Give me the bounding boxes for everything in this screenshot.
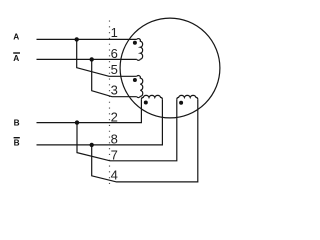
label A-bar — [13, 52, 20, 63]
junction node B-bar — [90, 143, 94, 147]
polarity dot L1 — [133, 41, 137, 45]
label B-bar — [14, 137, 20, 148]
svg-text:2: 2 — [111, 110, 118, 125]
coil L2 (phase A-bar, leads 5-3) — [137, 76, 143, 98]
wire A-bar to lead 3 (drop + jog) — [92, 59, 137, 96]
coil L4 (phase B-bar, leads 7-4) — [177, 95, 198, 99]
svg-text:5: 5 — [111, 62, 118, 77]
junction node A — [75, 37, 79, 41]
svg-text:4: 4 — [111, 168, 118, 183]
svg-text:8: 8 — [111, 132, 118, 147]
svg-text:A: A — [13, 53, 19, 63]
polarity dot L3 — [144, 101, 148, 105]
svg-text:B: B — [14, 138, 20, 148]
svg-text:3: 3 — [111, 83, 118, 98]
wire A-bar / lead 6 — [37, 58, 137, 60]
coil L3 (phase B, leads 2-8) — [141, 95, 162, 99]
wire A / lead 1 — [37, 38, 137, 40]
svg-text:B: B — [14, 118, 20, 128]
wire B-bar / lead 8 (horizontal + riser to coil L3) — [37, 99, 163, 145]
polarity dot L2 — [133, 78, 137, 82]
junction node B — [75, 120, 79, 124]
svg-text:1: 1 — [111, 25, 118, 40]
dashed separator line — [109, 21, 111, 188]
wire A to lead 5 (drop + jog) — [77, 39, 137, 76]
svg-text:6: 6 — [111, 46, 118, 61]
motor body circle — [120, 18, 220, 118]
coil L1 (phase A, leads 1-6) — [137, 39, 143, 61]
wire B-bar to lead 4 (drop + jog + riser to coil L4) — [92, 99, 198, 182]
svg-text:A: A — [13, 31, 19, 41]
polarity dot L4 — [179, 101, 183, 105]
wire B / lead 2 (horizontal + riser to coil L3) — [37, 99, 142, 122]
junction node A-bar — [90, 57, 94, 61]
wire B to lead 7 (drop + jog + riser to coil L4) — [77, 99, 177, 161]
svg-text:7: 7 — [111, 148, 118, 163]
